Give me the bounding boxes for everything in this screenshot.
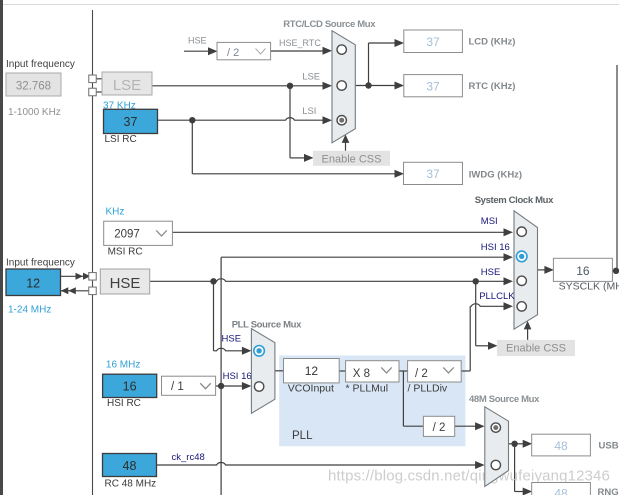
svg-text:IWDG (KHz): IWDG (KHz) xyxy=(469,170,522,181)
svg-text:48: 48 xyxy=(554,439,568,453)
svg-text:HSE: HSE xyxy=(222,333,242,344)
svg-text:LCD (KHz): LCD (KHz) xyxy=(469,37,516,48)
svg-text:Enable CSS: Enable CSS xyxy=(322,153,382,165)
svg-text:Input frequency: Input frequency xyxy=(6,258,75,269)
svg-text:RNG (MHz): RNG (MHz) xyxy=(598,487,619,495)
svg-text:PLL Source Mux: PLL Source Mux xyxy=(232,320,302,331)
svg-text:LSI: LSI xyxy=(302,106,316,117)
svg-text:/ 2: / 2 xyxy=(415,368,428,380)
svg-text:USB (MHz): USB (MHz) xyxy=(599,441,619,452)
svg-text:HSI RC: HSI RC xyxy=(107,398,141,409)
svg-text:RC 48 MHz: RC 48 MHz xyxy=(105,478,157,489)
svg-text:HSE_RTC: HSE_RTC xyxy=(279,38,321,48)
svg-text:* PLLMul: * PLLMul xyxy=(346,383,389,395)
svg-text:12: 12 xyxy=(26,277,40,291)
svg-text:/ PLLDiv: / PLLDiv xyxy=(408,383,448,395)
svg-text:PLL: PLL xyxy=(292,430,313,442)
svg-text:37: 37 xyxy=(426,167,440,181)
svg-text:KHz: KHz xyxy=(106,207,125,218)
svg-text:Enable CSS: Enable CSS xyxy=(506,343,566,355)
svg-text:48: 48 xyxy=(554,487,568,495)
svg-text:MSI: MSI xyxy=(481,216,498,227)
svg-text:16: 16 xyxy=(123,379,137,393)
svg-text:37: 37 xyxy=(426,35,440,49)
svg-text:/ 2: / 2 xyxy=(433,422,446,434)
svg-text:MSI RC: MSI RC xyxy=(108,247,143,258)
svg-text:LSE: LSE xyxy=(113,77,141,94)
svg-text:RTC (KHz): RTC (KHz) xyxy=(469,81,516,92)
svg-text:HSE: HSE xyxy=(188,36,207,46)
svg-text:1-24 MHz: 1-24 MHz xyxy=(8,305,51,316)
svg-text:HSI 16: HSI 16 xyxy=(481,242,510,253)
svg-text:VCOInput: VCOInput xyxy=(288,383,334,395)
svg-text:System Clock Mux: System Clock Mux xyxy=(475,195,554,206)
svg-text:37: 37 xyxy=(124,115,138,129)
svg-text:12: 12 xyxy=(305,364,319,378)
svg-text:HSE: HSE xyxy=(481,267,501,278)
svg-text:LSI RC: LSI RC xyxy=(105,134,137,145)
svg-text:2097: 2097 xyxy=(114,229,140,241)
svg-text:16 MHz: 16 MHz xyxy=(106,359,140,370)
svg-text:PLLCLK: PLLCLK xyxy=(479,291,515,302)
svg-text:48M Source Mux: 48M Source Mux xyxy=(469,394,540,405)
svg-text:X 8: X 8 xyxy=(353,368,370,380)
svg-text:16: 16 xyxy=(576,264,590,278)
svg-text:ck_rc48: ck_rc48 xyxy=(172,452,205,463)
svg-text:SYSCLK (MHz: SYSCLK (MHz xyxy=(559,281,619,293)
svg-text:HSI 16: HSI 16 xyxy=(223,371,252,382)
svg-text:Input frequency: Input frequency xyxy=(6,59,75,70)
svg-text:32.768: 32.768 xyxy=(16,81,51,93)
svg-text:LSE: LSE xyxy=(302,72,320,83)
svg-text:37: 37 xyxy=(426,79,440,93)
svg-text:RTC/LCD Source Mux: RTC/LCD Source Mux xyxy=(283,19,376,30)
svg-text:48: 48 xyxy=(123,459,137,473)
svg-text:1-1000 KHz: 1-1000 KHz xyxy=(8,107,61,118)
svg-text:/ 2: / 2 xyxy=(227,47,239,59)
svg-text:https://blog.csdn.net/qingwufe: https://blog.csdn.net/qingwufeiyang12346 xyxy=(328,468,610,485)
svg-text:/ 1: / 1 xyxy=(171,381,184,393)
svg-text:HSE: HSE xyxy=(110,275,141,292)
